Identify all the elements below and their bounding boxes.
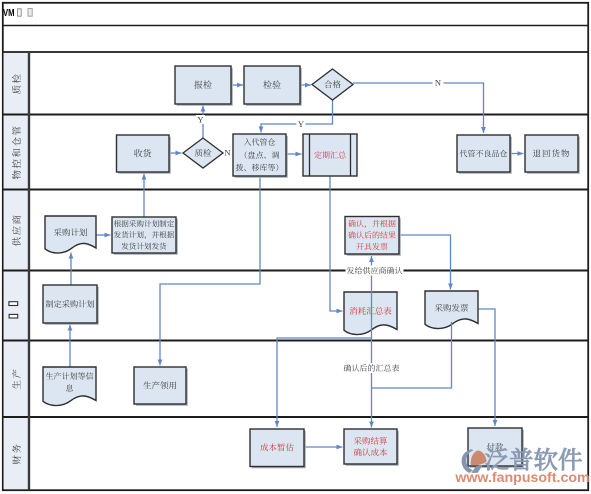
predefined 定期汇总 (303, 134, 357, 176)
label 发给供应商确认 (346, 266, 404, 276)
document 生产计划等信息 (43, 367, 96, 406)
svg-text:制定采购计划: 制定采购计划 (45, 299, 94, 310)
svg-text:采购结算: 采购结算 (353, 435, 388, 447)
svg-text:开具发票: 开具发票 (356, 242, 388, 253)
wire 报检→检验 (231, 84, 243, 86)
process 制定采购计划 (45, 287, 99, 325)
svg-text:生产计划等信: 生产计划等信 (46, 371, 94, 382)
label Y (合格→入代管仓) (297, 120, 306, 129)
wire 确认box→采购发票 (399, 235, 451, 290)
process 检验 (246, 68, 302, 106)
label N (合格) (433, 78, 444, 87)
wire 入代管仓→定期汇总 (286, 153, 302, 155)
svg-text:发给供应商确认: 发给供应商确认 (347, 265, 403, 276)
svg-text:发货计划，并根据: 发货计划，并根据 (114, 230, 175, 241)
wire 采购发票→junction (372, 322, 452, 388)
wire 收货→质检 (169, 152, 182, 154)
svg-text:发货计划发货: 发货计划发货 (121, 241, 167, 252)
svg-text:确认成本: 确认成本 (353, 446, 388, 458)
svg-text:供应商: 供应商 (9, 213, 23, 246)
svg-text:根据采购计划制定: 根据采购计划制定 (114, 218, 175, 229)
svg-text:拨、移库等）: 拨、移库等） (236, 163, 284, 174)
物控/供应商 lane line (2, 189, 589, 191)
header row line (2, 51, 589, 53)
svg-text:生产领用: 生产领用 (143, 380, 177, 392)
svg-text:成本暂估: 成本暂估 (260, 442, 295, 454)
svg-text:（盘点、调: （盘点、调 (240, 150, 280, 161)
svg-text:消耗汇总表: 消耗汇总表 (349, 305, 392, 317)
wire 合格 Y→入代管仓 (261, 100, 333, 133)
svg-text:www.fanpusoft.com: www.fanpusoft.com (454, 470, 589, 486)
wire 代管不良品仓→退回货物 (510, 153, 524, 155)
process 采购结算确认成本 (346, 431, 399, 466)
process 代管不良品仓 (459, 137, 512, 174)
label 确认后的汇总表 (343, 363, 401, 373)
wire 质检 Y→报检 (202, 106, 204, 139)
wire 采购发票→付款 (478, 309, 495, 426)
svg-text:入代管仓: 入代管仓 (244, 137, 276, 148)
process 根据采购计划制定发货计划 (114, 219, 178, 255)
document 采购发票 (425, 291, 478, 329)
process 收货 (118, 137, 171, 174)
wire 消耗汇总表→采购结算确认成本 (371, 292, 373, 428)
svg-text:采购发票: 采购发票 (434, 302, 469, 314)
svg-text:合格: 合格 (324, 79, 342, 91)
label Y (质检→报检) (196, 115, 205, 124)
wire 质检 N→入代管仓 (223, 152, 232, 154)
svg-text:物控和仓管: 物控和仓管 (9, 124, 23, 179)
wire 入代管仓→生产领用 (160, 176, 260, 366)
lane label tofu boxes (9, 302, 18, 306)
svg-text:退回货物: 退回货物 (532, 148, 570, 160)
process 生产领用 (136, 369, 188, 406)
wire 生产计划等信息→制定采购计划 (69, 325, 71, 368)
lane label cells (4, 53, 29, 114)
svg-text:报检: 报检 (194, 78, 212, 91)
svg-text:检验: 检验 (263, 78, 281, 91)
label N (质检→入代管仓) (223, 149, 232, 157)
process 确认并开具发票 (347, 218, 401, 256)
svg-text:生产: 生产 (9, 367, 23, 389)
decision 质检 (183, 138, 223, 168)
process 成本暂估 (252, 431, 306, 469)
wire 检验→合格 (300, 84, 311, 86)
svg-text:收货: 收货 (134, 147, 153, 160)
svg-text:确认后的汇总表: 确认后的汇总表 (344, 363, 400, 374)
wire 合格 N→代管不良品仓 (353, 83, 484, 133)
svg-text:N: N (435, 77, 441, 89)
svg-text:财务: 财务 (9, 442, 23, 464)
svg-text:确认后的结果: 确认后的结果 (348, 230, 396, 241)
生产/财务 lane line (2, 416, 589, 418)
process 退回货物 (527, 137, 580, 174)
供应商/采购 lane line (2, 270, 589, 272)
svg-text:N: N (224, 147, 230, 159)
process 付款 (470, 430, 524, 468)
title row line (2, 25, 589, 27)
wire 消耗汇总表→确认box (371, 256, 373, 292)
document 消耗汇总表 (344, 292, 397, 335)
wire junction branch→成本暂估 (277, 338, 372, 427)
wire 成本暂估→采购结算确认成本 (304, 446, 343, 448)
wire 根据发货box→收货 (143, 174, 145, 218)
svg-text:质检: 质检 (9, 72, 23, 94)
label column divider (28, 52, 30, 490)
decision 合格 (312, 69, 353, 100)
质检/物控 lane line (2, 114, 589, 116)
wire 定期汇总→消耗汇总表 (330, 176, 343, 311)
svg-text:确认，并根据: 确认，并根据 (348, 219, 396, 230)
process 报检 (177, 68, 233, 106)
svg-text:定期汇总: 定期汇总 (314, 150, 347, 161)
svg-text:采购计划: 采购计划 (53, 227, 88, 239)
svg-text:Y: Y (298, 118, 304, 130)
logo fanpu icon (462, 449, 474, 473)
svg-text:息: 息 (66, 383, 75, 394)
svg-text:VM: VM (3, 7, 15, 19)
采购/生产 lane line (2, 340, 589, 342)
svg-text:质检: 质检 (194, 147, 212, 159)
wire 制定采购计划→采购计划 (70, 253, 72, 286)
svg-text:Y: Y (197, 114, 203, 126)
document 采购计划 (45, 216, 96, 253)
process 入代管仓 (235, 136, 288, 178)
svg-text:代管不良品仓: 代管不良品仓 (460, 148, 508, 159)
wire 采购计划→根据发货box (96, 234, 111, 236)
